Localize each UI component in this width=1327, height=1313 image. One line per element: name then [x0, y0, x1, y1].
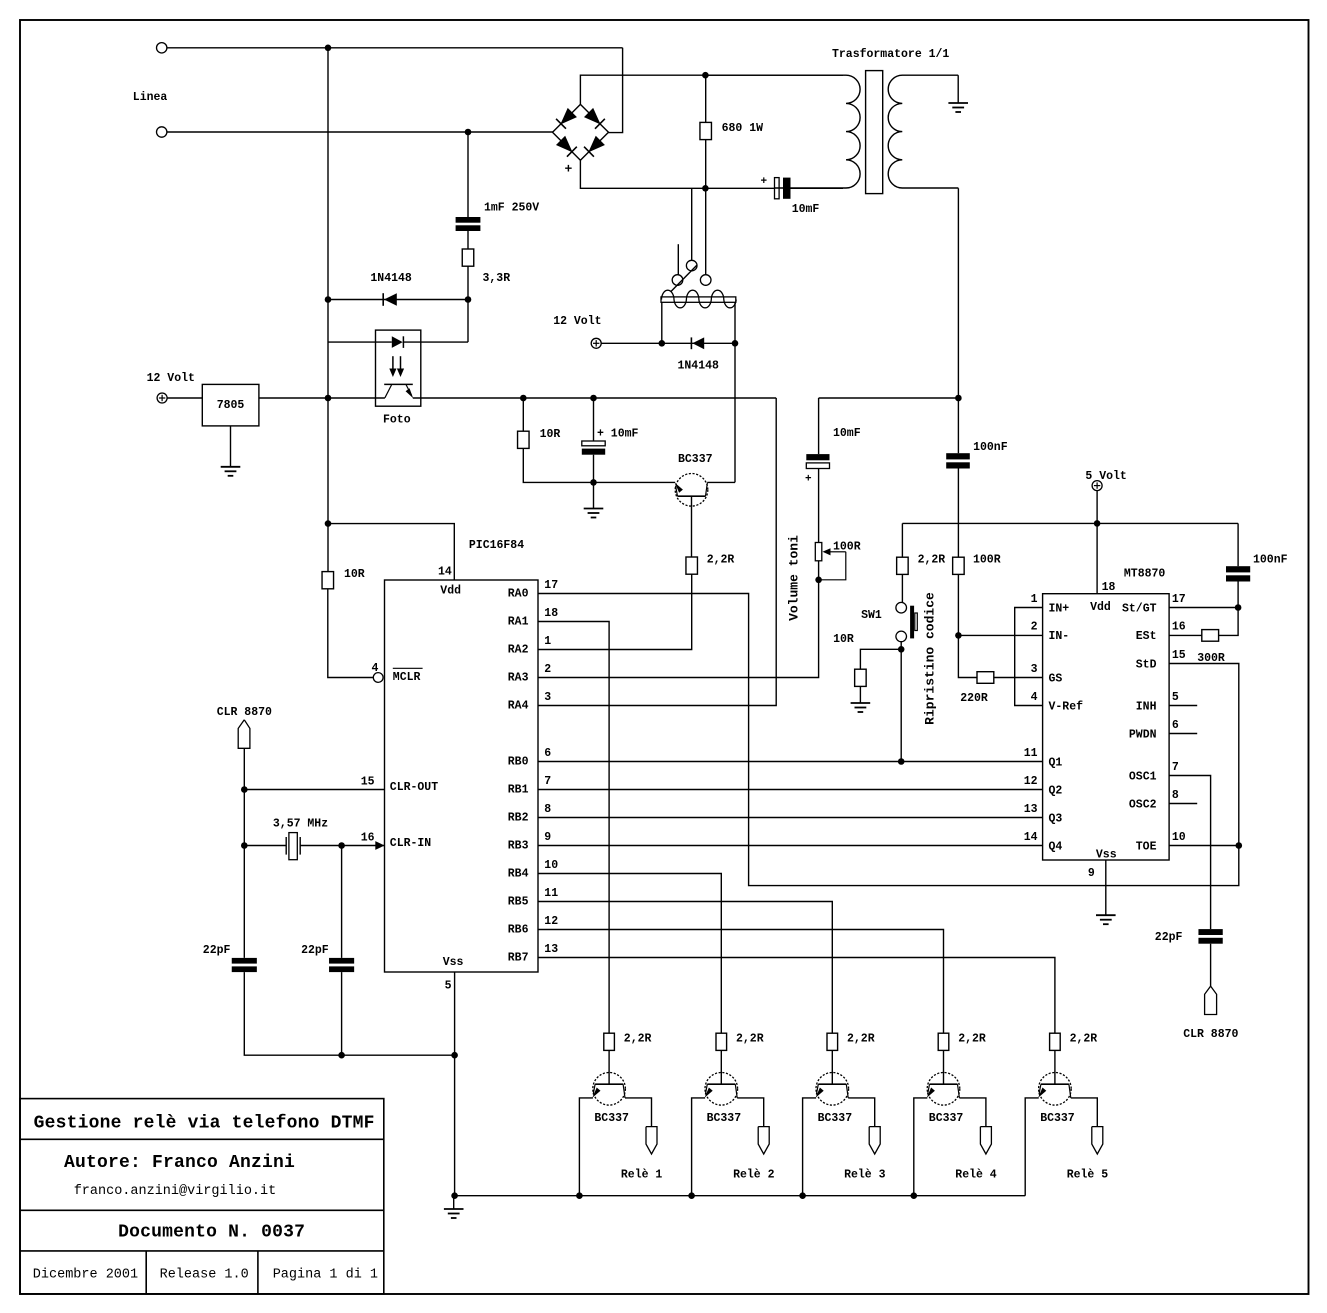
- junction left vertical / 1N4148: [325, 296, 332, 303]
- wire Linea1 right corner down to bridge: [609, 48, 623, 133]
- wire 5V rail from 7805: [259, 397, 385, 399]
- junction 5V rail: [1094, 520, 1101, 527]
- svg-text:Q1: Q1: [1049, 756, 1063, 769]
- svg-text:Trasformatore 1/1: Trasformatore 1/1: [832, 48, 949, 61]
- wire cap to resistor: [467, 231, 469, 249]
- wire 22pF-1 to gnd rail: [244, 972, 454, 1055]
- svg-text:RB0: RB0: [508, 756, 529, 769]
- wire left vertical corner into opto LED: [328, 341, 376, 343]
- junction Linea1/left-vertical: [325, 45, 332, 52]
- wire 10R to MCLR: [328, 589, 373, 678]
- svg-text:TOE: TOE: [1136, 840, 1157, 853]
- svg-text:BC337: BC337: [678, 453, 713, 466]
- wire INH stub: [1169, 705, 1197, 707]
- svg-text:2,2R: 2,2R: [624, 1033, 652, 1046]
- wire MT Vss ground: [1105, 860, 1107, 915]
- wire flag stem: [243, 748, 245, 958]
- wire diode 1N4148 horizontal: [328, 299, 468, 301]
- capacitor 22pF (OSC1): [1198, 929, 1222, 935]
- svg-text:15: 15: [1172, 649, 1186, 662]
- node Linea terminal 1: [157, 43, 167, 53]
- wire 2,2R to base (relay 5): [1054, 1050, 1056, 1072]
- relay contact common: [672, 275, 683, 286]
- junction crystal left: [241, 842, 248, 849]
- wire OSC1 net: [1169, 776, 1211, 930]
- svg-text:Relè 5: Relè 5: [1067, 1169, 1109, 1182]
- svg-text:22pF: 22pF: [301, 944, 329, 957]
- wire coil left lead: [661, 302, 663, 343]
- svg-text:16: 16: [361, 831, 375, 844]
- svg-text:8: 8: [1172, 789, 1179, 802]
- wire flyback diode: [601, 342, 735, 344]
- svg-text:5: 5: [1172, 691, 1179, 704]
- bridge rectifier D1-D4: [553, 104, 609, 160]
- svg-text:Relè 1: Relè 1: [621, 1169, 663, 1182]
- wire secondary top to ground: [957, 75, 959, 103]
- svg-text:7805: 7805: [217, 399, 245, 412]
- relay flag Rele 3: [869, 1127, 880, 1154]
- svg-text:SW1: SW1: [861, 609, 882, 622]
- svg-text:11: 11: [1024, 747, 1038, 760]
- svg-text:RB4: RB4: [508, 868, 529, 881]
- svg-text:100R: 100R: [833, 541, 861, 554]
- pin MCLR bubble: [373, 673, 383, 683]
- wire RB4 net: [538, 874, 721, 1034]
- wire bridge top corner up: [580, 75, 843, 104]
- svg-text:MT8870: MT8870: [1124, 568, 1166, 581]
- junction rail/10mF: [590, 395, 597, 402]
- capacitor 100nF (input): [957, 398, 959, 453]
- wire left vertical (Linea1 down to 5V rail): [327, 48, 329, 398]
- wire base resistor to RA2: [538, 574, 692, 649]
- transformer T1 secondary winding: [888, 75, 958, 188]
- transformer T1 primary winding: [705, 75, 860, 188]
- junction Linea2/1mF-chain: [465, 129, 472, 136]
- svg-text:8: 8: [544, 803, 551, 816]
- svg-text:1N4148: 1N4148: [678, 360, 720, 373]
- svg-text:3: 3: [1031, 663, 1038, 676]
- wire 2,2R to base (relay 1): [608, 1050, 610, 1072]
- resistor 2,2R (relay 2): [716, 1033, 727, 1050]
- capacitor 10mF (filter): [593, 398, 595, 441]
- wire 22pF-2 to gnd rail: [341, 972, 343, 1055]
- svg-text:15: 15: [361, 775, 375, 788]
- regulator U2 7805: [202, 384, 259, 426]
- junction 3,3R / 1N4148: [465, 296, 472, 303]
- wire left vertical to 10R: [327, 398, 329, 572]
- switch SW1: [896, 602, 907, 613]
- capacitor 100nF (steering): [1237, 523, 1239, 566]
- resistor 2,2R (relay 3): [827, 1033, 838, 1050]
- svg-text:2,2R: 2,2R: [847, 1033, 875, 1046]
- svg-text:BC337: BC337: [707, 1112, 742, 1125]
- svg-text:RA2: RA2: [508, 644, 529, 657]
- svg-text:Pagina 1 di 1: Pagina 1 di 1: [273, 1268, 378, 1283]
- junction crystal right: [338, 842, 345, 849]
- svg-text:IN+: IN+: [1049, 602, 1070, 615]
- ground (logic): [453, 1196, 455, 1209]
- svg-text:1: 1: [544, 635, 551, 648]
- svg-text:1mF 250V: 1mF 250V: [484, 202, 539, 215]
- svg-text:1: 1: [1031, 593, 1038, 606]
- svg-text:CLR-OUT: CLR-OUT: [390, 781, 438, 794]
- svg-text:4: 4: [1031, 691, 1038, 704]
- transistor Q1 BC337 (tone driver): [675, 474, 708, 507]
- capacitor 10mF (volume): [806, 454, 829, 460]
- svg-text:10mF: 10mF: [833, 427, 861, 440]
- junction 22pF-2 / rail: [338, 1052, 345, 1059]
- wire relay right contact up: [705, 188, 707, 274]
- wire coil right lead: [734, 302, 736, 343]
- wire collector (relay 1): [625, 1098, 652, 1127]
- junction emitter 1 / ground rail: [576, 1192, 583, 1199]
- svg-text:RA0: RA0: [508, 588, 529, 601]
- junction emitter 4 / ground rail: [911, 1192, 918, 1199]
- svg-text:Vss: Vss: [443, 956, 464, 969]
- resistor 10R (SW1): [855, 669, 867, 686]
- svg-text:22pF: 22pF: [1155, 931, 1183, 944]
- wire emitter (relay 5): [1025, 1098, 1039, 1196]
- svg-text:BC337: BC337: [929, 1112, 964, 1125]
- svg-text:12 Volt: 12 Volt: [553, 315, 601, 328]
- svg-text:RB6: RB6: [508, 924, 529, 937]
- svg-text:100nF: 100nF: [1253, 554, 1288, 567]
- node 5 Volt terminal: [1092, 481, 1102, 491]
- svg-text:10: 10: [544, 859, 558, 872]
- svg-text:+: +: [761, 176, 768, 188]
- microcontroller U3 PIC16F84: [385, 580, 539, 972]
- svg-text:+ 10mF: + 10mF: [597, 428, 639, 441]
- wire collector (relay 4): [959, 1098, 986, 1127]
- svg-text:14: 14: [438, 566, 452, 579]
- svg-text:Q3: Q3: [1049, 812, 1063, 825]
- svg-text:Relè 3: Relè 3: [844, 1169, 886, 1182]
- resistor 2,2R (relay 1): [604, 1033, 615, 1050]
- svg-text:220R: 220R: [960, 692, 988, 705]
- svg-text:RA1: RA1: [508, 616, 529, 629]
- svg-text:9: 9: [1088, 867, 1095, 880]
- ground (filter): [584, 508, 604, 510]
- node 12 Volt terminal (relay): [591, 338, 601, 348]
- wire PWDN stub: [1169, 733, 1197, 735]
- title block frame: [20, 1099, 384, 1294]
- svg-text:RB3: RB3: [508, 840, 529, 853]
- wire Linea1 horizontal: [167, 47, 623, 49]
- wire RB7 net: [538, 958, 1055, 1034]
- wire TOE stub: [1169, 845, 1239, 847]
- wire relay NC stub: [677, 244, 679, 274]
- wire BC337 base chain: [691, 506, 693, 557]
- svg-text:BC337: BC337: [818, 1112, 853, 1125]
- svg-text:5 Volt: 5 Volt: [1085, 470, 1126, 483]
- wire RB3-Q4: [538, 845, 1043, 847]
- resistor 300R: [1202, 630, 1219, 642]
- junction pot wiper: [815, 577, 822, 584]
- svg-text:5: 5: [445, 980, 452, 993]
- wire 2,2R to base (relay 2): [720, 1050, 722, 1072]
- wire 5V stem: [1096, 491, 1098, 524]
- transistor Q BC337 (relay 5): [1039, 1073, 1072, 1106]
- junction coil right / diode: [732, 340, 739, 347]
- wire collector (relay 3): [848, 1098, 875, 1127]
- svg-text:Vdd: Vdd: [440, 585, 461, 598]
- svg-text:IN-: IN-: [1049, 630, 1070, 643]
- wire RA1 net: [538, 622, 609, 1034]
- junction Vss / rail: [451, 1052, 458, 1059]
- diode 1N4148 (top): [384, 293, 397, 306]
- wire SW1 to Q1 line: [900, 642, 902, 762]
- junction SW1 net / Q1 wire: [898, 758, 905, 765]
- svg-text:Ripristino codice: Ripristino codice: [923, 592, 938, 725]
- resistor 10R (MCLR): [322, 572, 334, 589]
- svg-text:Q4: Q4: [1049, 840, 1063, 853]
- svg-text:St/GT: St/GT: [1122, 602, 1157, 615]
- relay flag Rele 1: [646, 1127, 657, 1154]
- pin CLR-IN arrow: [375, 841, 384, 850]
- svg-text:2: 2: [544, 663, 551, 676]
- wire RB0-Q1: [538, 761, 1043, 763]
- svg-text:3,3R: 3,3R: [483, 272, 511, 285]
- svg-text:10R: 10R: [344, 568, 365, 581]
- svg-text:GS: GS: [1049, 672, 1063, 685]
- svg-text:3,57 MHz: 3,57 MHz: [273, 817, 328, 830]
- svg-text:BC337: BC337: [594, 1112, 629, 1125]
- transformer T1 core: [866, 71, 883, 194]
- wire volume chain top: [818, 398, 820, 454]
- wire CLR-OUT: [244, 789, 384, 791]
- wire OSC2 stub: [1169, 803, 1197, 805]
- svg-text:11: 11: [544, 887, 558, 900]
- wire relay ground rail: [455, 1195, 1026, 1197]
- svg-text:Relè 2: Relè 2: [733, 1169, 775, 1182]
- junction emitter 3 / ground rail: [799, 1192, 806, 1199]
- svg-text:INH: INH: [1136, 700, 1157, 713]
- wire crystal right lead: [300, 845, 384, 847]
- wire RA4 net: [538, 398, 776, 706]
- resistor 2,2R (SW1): [897, 557, 909, 574]
- wire SW1 to 10R: [860, 649, 901, 669]
- svg-text:22pF: 22pF: [203, 944, 231, 957]
- svg-text:Volume toni: Volume toni: [787, 535, 802, 621]
- resistor 100R (input): [953, 557, 965, 574]
- wire collector (relay 2): [737, 1098, 764, 1127]
- wire bottom rail to transformer: [791, 187, 844, 189]
- svg-text:3: 3: [544, 691, 551, 704]
- junction rail/left vertical: [325, 395, 332, 402]
- svg-text:2,2R: 2,2R: [918, 554, 946, 567]
- relay contact NO-mid: [686, 260, 697, 271]
- relay flag Rele 5: [1092, 1127, 1103, 1154]
- svg-text:12 Volt: 12 Volt: [147, 372, 195, 385]
- svg-text:Q2: Q2: [1049, 784, 1063, 797]
- resistor 2,2R (relay 4): [938, 1033, 949, 1050]
- potentiometer 100R (volume): [815, 543, 822, 561]
- wire IN- node down to GS chain: [958, 635, 977, 677]
- svg-text:ESt: ESt: [1136, 630, 1157, 643]
- wire 680 top: [705, 75, 707, 122]
- svg-text:7: 7: [544, 775, 551, 788]
- wire relay mid contact up: [691, 188, 693, 260]
- wire RB6 net: [538, 930, 944, 1034]
- svg-text:RA4: RA4: [508, 700, 529, 713]
- svg-text:100nF: 100nF: [973, 441, 1008, 454]
- svg-text:680 1W: 680 1W: [722, 122, 764, 135]
- wire ESt stub: [1169, 634, 1202, 636]
- ground (MT8870): [1096, 914, 1116, 916]
- capacitor 22pF (left): [232, 958, 257, 964]
- wire relay coil to BC337 collector: [734, 343, 736, 482]
- wire 10mF to ground: [593, 482, 595, 508]
- svg-text:2,2R: 2,2R: [958, 1033, 986, 1046]
- wire 220R to GS: [994, 677, 1043, 679]
- wire rail right segment: [819, 397, 959, 399]
- ground (transformer secondary): [948, 102, 968, 104]
- junction SW1 / 10R: [898, 646, 905, 653]
- relay flag Rele 4: [980, 1127, 991, 1154]
- svg-text:10mF: 10mF: [792, 203, 820, 216]
- svg-text:6: 6: [544, 747, 551, 760]
- svg-text:RA3: RA3: [508, 672, 529, 685]
- junction coil left / diode: [659, 340, 666, 347]
- ground (SW1): [851, 702, 871, 704]
- relay K1 coil: [661, 297, 736, 302]
- wire secondary bottom down (audio line): [957, 188, 959, 398]
- svg-text:OSC2: OSC2: [1129, 798, 1157, 811]
- svg-text:RB5: RB5: [508, 896, 529, 909]
- junction emitter 2 / ground rail: [688, 1192, 695, 1199]
- wire StD net: [538, 594, 1239, 886]
- wire RB5 net: [538, 902, 832, 1034]
- svg-text:Foto: Foto: [383, 414, 411, 427]
- resistor 2,2R (tone base): [686, 557, 698, 574]
- svg-text:1N4148: 1N4148: [370, 272, 412, 285]
- junction StD / TOE: [1236, 842, 1243, 849]
- svg-text:Gestione relè via telefono DTM: Gestione relè via telefono DTMF: [34, 1113, 375, 1133]
- svg-text:12: 12: [1024, 775, 1038, 788]
- relay contact NO-right: [700, 275, 711, 286]
- svg-text:Release 1.0: Release 1.0: [160, 1268, 249, 1283]
- wire 7805 ground lead: [230, 426, 232, 467]
- junction emitter net / 10mF: [590, 479, 597, 486]
- wire ESt to St/GT node: [1219, 608, 1239, 636]
- wire 10R top: [522, 398, 524, 431]
- svg-text:franco.anzini@virgilio.it: franco.anzini@virgilio.it: [74, 1184, 277, 1199]
- wire MT Vdd: [1096, 523, 1098, 593]
- node 12 Volt terminal (input): [157, 393, 167, 403]
- wire Linea2 horizontal: [167, 131, 553, 133]
- wire crystal left lead: [244, 845, 286, 847]
- svg-text:CLR-IN: CLR-IN: [390, 837, 432, 850]
- wire St/GT net: [1169, 607, 1238, 609]
- junction left vertical / Vdd: [325, 520, 332, 527]
- svg-text:RB2: RB2: [508, 812, 529, 825]
- wire PIC Vss down: [454, 972, 456, 1196]
- wire bridge bottom corner down: [580, 160, 774, 188]
- svg-text:2: 2: [1031, 621, 1038, 634]
- wire 22pF to flag: [1210, 944, 1212, 986]
- svg-text:StD: StD: [1136, 658, 1157, 671]
- svg-text:CLR 8870: CLR 8870: [217, 706, 272, 719]
- transistor Q BC337 (relay 4): [927, 1073, 960, 1106]
- svg-text:+: +: [565, 162, 573, 177]
- resistor 680 1W: [700, 122, 712, 139]
- wire 2,2R to SW1: [901, 574, 903, 602]
- resistor 2,2R (relay 5): [1050, 1033, 1061, 1050]
- wire 2,2R to base (relay 3): [831, 1050, 833, 1072]
- svg-text:Dicembre 2001: Dicembre 2001: [33, 1268, 138, 1283]
- wire 100nF to 100R: [957, 469, 959, 558]
- diode 1N4148 (flyback): [692, 337, 704, 349]
- svg-text:6: 6: [1172, 719, 1179, 732]
- ground (7805): [221, 466, 241, 468]
- resistor 10R (filter): [518, 431, 530, 448]
- wire IN- connection: [958, 634, 1042, 636]
- svg-text:+: +: [805, 474, 812, 486]
- junction bottom rail / 680 resistor: [702, 185, 709, 192]
- wire 22pF-2 vertical: [341, 846, 343, 958]
- wire emitter (relay 2): [692, 1098, 706, 1196]
- wire 1mF chain top: [467, 132, 469, 217]
- capacitor 1mF 250V: [456, 217, 481, 223]
- wire BC337 collector: [707, 481, 735, 483]
- transistor Q BC337 (relay 1): [593, 1073, 626, 1106]
- resistor 220R: [977, 672, 994, 684]
- transistor Q BC337 (relay 3): [816, 1073, 849, 1106]
- wire 100R to IN-: [957, 574, 959, 635]
- relay flag Rele 2: [758, 1127, 769, 1154]
- svg-text:18: 18: [544, 607, 558, 620]
- svg-text:14: 14: [1024, 831, 1038, 844]
- svg-text:MCLR: MCLR: [393, 671, 421, 684]
- wire 5V rail after opto: [413, 397, 776, 399]
- resistor 3,3R: [462, 249, 474, 266]
- wire 2,2R to base (relay 4): [943, 1050, 945, 1072]
- svg-text:10R: 10R: [833, 633, 854, 646]
- wire PIC Vdd: [328, 524, 454, 580]
- svg-text:V-Ref: V-Ref: [1049, 700, 1084, 713]
- wire RB2-Q3: [538, 817, 1043, 819]
- junction top rail / 680 resistor: [702, 72, 709, 79]
- node Linea terminal 2: [157, 127, 167, 137]
- svg-text:OSC1: OSC1: [1129, 770, 1157, 783]
- wire emitter (relay 1): [579, 1098, 593, 1196]
- wire 12V to 7805: [167, 397, 202, 399]
- svg-text:12: 12: [544, 915, 558, 928]
- decoder U4 MT8870: [1043, 594, 1170, 860]
- svg-text:13: 13: [1024, 803, 1038, 816]
- node CLR 8870 flag (left): [238, 720, 250, 749]
- svg-text:10R: 10R: [540, 428, 561, 441]
- wire emitter (relay 4): [914, 1098, 928, 1196]
- svg-text:10: 10: [1172, 831, 1186, 844]
- junction IN- node: [955, 632, 962, 639]
- svg-text:Relè 4: Relè 4: [955, 1169, 997, 1182]
- svg-text:RB1: RB1: [508, 784, 529, 797]
- svg-text:BC337: BC337: [1040, 1112, 1075, 1125]
- junction CLR-OUT net: [241, 786, 248, 793]
- wire rail corner to 2,2R: [901, 523, 903, 557]
- svg-text:100R: 100R: [973, 554, 1001, 567]
- svg-text:Autore: Franco Anzini: Autore: Franco Anzini: [64, 1153, 295, 1173]
- svg-text:2,2R: 2,2R: [736, 1033, 764, 1046]
- wire collector (relay 5): [1071, 1098, 1098, 1127]
- junction St/GT / 100nF: [1235, 604, 1242, 611]
- svg-text:Vdd: Vdd: [1090, 601, 1111, 614]
- relay switch arm: [671, 265, 697, 291]
- svg-text:Vss: Vss: [1096, 849, 1117, 862]
- svg-text:16: 16: [1172, 621, 1186, 634]
- svg-text:2,2R: 2,2R: [707, 554, 735, 567]
